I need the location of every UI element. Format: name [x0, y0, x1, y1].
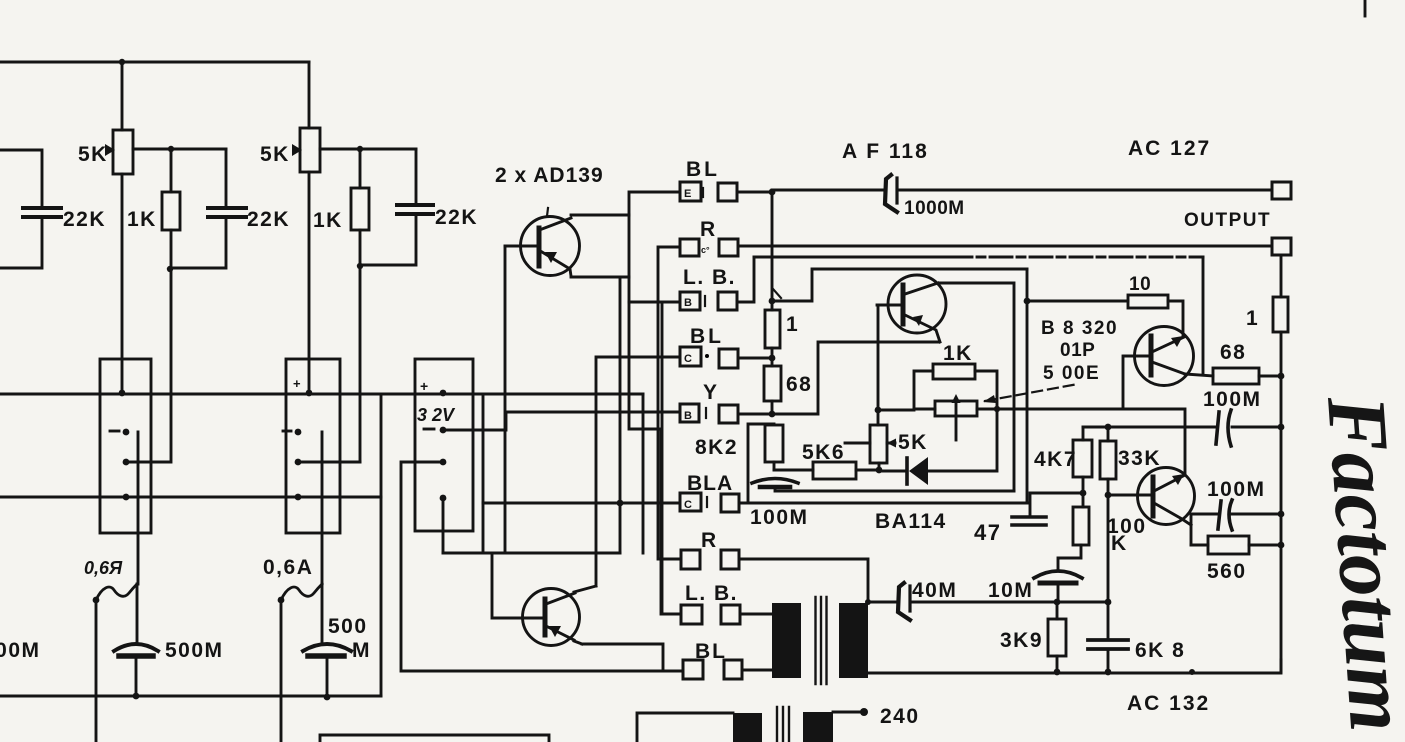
transistor Q3 AF118: [888, 275, 946, 333]
wire: BLA long rail y503: [483, 502, 1028, 505]
wire: battery pin3 left and down to BL bottom row: [401, 462, 683, 671]
svg-text:10M: 10M: [988, 579, 1033, 602]
wire: long supply rail y394: [0, 393, 643, 396]
svg-text:C: C: [684, 353, 692, 365]
resistor 100K: [1073, 507, 1089, 545]
svg-text:B: B: [684, 410, 692, 422]
svg-text:AC 127: AC 127: [1128, 137, 1211, 160]
svg-text:B 8 320: B 8 320: [1041, 318, 1118, 339]
potentiometer 5K (right channel): [300, 128, 320, 172]
svg-text:3 2V: 3 2V: [417, 405, 456, 425]
wire: between 1 and 68: [771, 348, 774, 366]
terminal pair row9 BL: [683, 660, 742, 679]
node: battery pin4: [440, 495, 447, 502]
potentiometer B8320 trimmer: [935, 401, 977, 416]
terminal: output 2: [1272, 238, 1291, 255]
terminal pair row5 Y: [680, 404, 738, 423]
wire: row3 right jog up to long feedback line: [737, 257, 754, 302]
wire: mesh row y553: [443, 552, 620, 555]
transformer T1 winding left: [772, 603, 801, 678]
wire: row5 right to chain node and jog up to Q3 emitter line: [738, 342, 938, 414]
wire: LB row1 to LB row2 tie: [661, 302, 664, 614]
wire: 100M lower row: [1191, 513, 1281, 516]
wire: Q2 base feed: [492, 553, 523, 618]
svg-text:R: R: [701, 529, 718, 552]
wire: long line y257 dashed part: [950, 256, 1203, 259]
svg-text:B: B: [684, 297, 692, 309]
svg-text:C: C: [684, 499, 692, 511]
terminal pair row6 BLA: [680, 493, 739, 512]
wire: fuse1 right to 500M cap1: [136, 584, 139, 642]
capacitor 40M: [898, 583, 910, 620]
wire: box1 pin3 to 1K1 rail: [126, 269, 171, 462]
node: box1 pin3: [123, 459, 130, 466]
svg-text:100M: 100M: [750, 506, 809, 529]
svg-text:6K 8: 6K 8: [1135, 639, 1185, 662]
potentiometer 5K (bias trimmer): [870, 425, 887, 463]
wire: fuse1 left lead down: [95, 600, 98, 742]
capacitor 1000M: [885, 175, 897, 212]
svg-text:L. B.: L. B.: [683, 266, 736, 289]
capacitor 10M (electrolytic): [1034, 571, 1082, 578]
wire: Q3 collector to feedback return: [938, 283, 1014, 491]
resistor 68 (output): [1213, 368, 1259, 384]
capacitor 100M (upper coupling): [1216, 412, 1219, 444]
wire: box2 pin3 to 1K2 rail: [298, 461, 360, 464]
wire: 560 row: [1191, 544, 1208, 547]
wire: 3K9 top lead: [1056, 602, 1059, 619]
capacitor 100M (lower): [1218, 501, 1221, 529]
node: box2 pin4: [295, 494, 302, 501]
svg-text:40M: 40M: [912, 579, 957, 602]
wire: 1K right leg: [975, 371, 997, 409]
svg-text:22K: 22K: [435, 206, 478, 229]
wire: 10 to Q4 top lead: [1168, 301, 1183, 337]
svg-text:68: 68: [1220, 341, 1246, 364]
capacitor 22K (third): [397, 205, 433, 214]
wire: rail corner down x643: [642, 394, 645, 553]
terminal pair row3 L.B.: [680, 292, 737, 310]
wire: bottom ground rail left: [0, 695, 381, 698]
wire: row4 right to resistor chain node: [738, 357, 772, 360]
wire: 68 bottom to Y node: [771, 401, 774, 414]
wire: 68 to right rail: [1259, 375, 1281, 378]
transformer T2 frame: [637, 713, 733, 742]
wire: Q1 emitter drop2 with jog to LB row2: [629, 277, 681, 614]
wire: 1K1 bottom lead: [170, 230, 173, 269]
wire: 4K7 top lead: [1082, 427, 1085, 440]
wire: row7 right to transformer primary top: [739, 559, 868, 603]
node: box1 pin2 with minus mark: [123, 429, 130, 436]
node: 1K2 bottom junction: [357, 263, 363, 269]
transformer T1 core lines: [816, 597, 827, 684]
capacitor 47: [1012, 517, 1046, 525]
resistor 1K (first): [162, 192, 180, 230]
node: box1 pin1: [119, 390, 126, 397]
svg-text:+: +: [420, 378, 428, 394]
wire: 40M row from transformer: [868, 601, 896, 604]
resistor 1 (output, vertical): [1273, 297, 1288, 332]
resistor 5K6: [813, 462, 856, 479]
wire: right rail: [1280, 332, 1283, 672]
wire: 1K2 rail down to switch box2 row: [359, 266, 362, 462]
svg-text:0,6A: 0,6A: [263, 556, 313, 579]
wire: bottom rail right section: [868, 660, 1281, 673]
wire: row2 rail to output terminal 2: [738, 245, 1272, 248]
wire: long rail y497: [0, 496, 381, 499]
battery box 3 2V: [415, 359, 473, 531]
transistor Q4 AC127: [1135, 327, 1194, 386]
wire: 500M cap2 bottom lead: [326, 658, 329, 697]
wire: Q2 emitter to BL bottom row: [574, 641, 663, 671]
capacitor 6K8: [1088, 640, 1128, 649]
svg-text:BL: BL: [690, 325, 724, 348]
wire: 22K cap1 leads off canvas left: [0, 150, 42, 268]
switch box 1 (left channel connector block): [100, 359, 151, 533]
svg-text:BLA: BLA: [687, 472, 733, 495]
wire: 5K pot1 wiper row to 22K cap2: [133, 148, 226, 151]
svg-text:5 00E: 5 00E: [1043, 363, 1100, 384]
svg-text:E: E: [684, 188, 691, 200]
svg-text:0,6Я: 0,6Я: [84, 558, 123, 578]
svg-text:A F 118: A F 118: [842, 140, 929, 163]
svg-text:68: 68: [786, 373, 812, 396]
svg-text:L. B.: L. B.: [685, 582, 738, 605]
svg-text:1000M: 1000M: [904, 198, 965, 219]
wire: feedback jog from chain node to inner line: [772, 269, 1027, 301]
wire: right drop x1203 to 68 row: [1202, 257, 1205, 374]
wire: Q4 emitter to 68 resistor: [1185, 374, 1213, 376]
wire: 1K / trimmer parallel left leg: [878, 371, 933, 410]
svg-text:5K: 5K: [260, 143, 290, 166]
resistor 8K2: [765, 425, 783, 462]
potentiometer 5K (left channel): [113, 130, 133, 174]
wire: diode row: [879, 409, 997, 471]
wire: battery minus row to Y terminal row: [443, 412, 680, 430]
terminal pair row8 L.B.: [681, 605, 740, 624]
svg-text:M: M: [352, 639, 371, 662]
wire: battery pin4 down to mesh row: [442, 498, 445, 553]
svg-text:1K: 1K: [943, 342, 973, 365]
svg-text:5K6: 5K6: [802, 441, 845, 464]
wire: 3K9 bottom lead: [1056, 656, 1059, 672]
transformer T2 core lines: [777, 707, 789, 742]
svg-text:BL: BL: [686, 158, 720, 181]
svg-text:47: 47: [974, 520, 1001, 545]
wire: Q3 base column through 5K pot top: [877, 305, 880, 425]
node: box2 pin1 (plus): [306, 390, 313, 397]
svg-text:1: 1: [786, 313, 799, 336]
svg-text:8K2: 8K2: [695, 436, 738, 459]
node: box1 pin4: [123, 494, 130, 501]
wire: Q5 emitter split: [1190, 514, 1193, 545]
wire: 100M coupling rail y427: [1083, 426, 1281, 429]
svg-text:100M: 100M: [1203, 388, 1262, 411]
svg-text:22K: 22K: [63, 208, 106, 231]
wire: 22K cap2 top lead: [225, 149, 228, 207]
svg-text:240: 240: [880, 705, 920, 728]
svg-text:c°: c°: [701, 245, 710, 255]
svg-text:4K7: 4K7: [1034, 448, 1077, 471]
wire: row1 to 1000M node: [737, 191, 772, 194]
wire: fuse2 right to 500M cap2: [321, 584, 324, 642]
mark: degree after row4 square: [705, 354, 709, 358]
svg-text:AC 132: AC 132: [1127, 692, 1210, 715]
wire: Q1 base column: [504, 246, 507, 553]
wire: fuse2 left lead down: [280, 600, 283, 742]
resistor 4K7: [1073, 440, 1092, 477]
wire: middle resistor chain column x772: [771, 192, 774, 310]
wire: box2 inner column down to fuse2: [321, 432, 324, 584]
wire: 33K column to 40M row: [1107, 495, 1110, 602]
box at bottom left edge: [320, 735, 549, 742]
wire: 4K7 bottom node: [1082, 477, 1085, 507]
svg-text:OUTPUT: OUTPUT: [1184, 210, 1271, 231]
resistor 1K (horizontal): [933, 364, 975, 379]
wire: 1K2 top lead: [359, 149, 362, 188]
node: 1K2 top junction: [357, 146, 363, 152]
wire: Q4 base riser to trimmer row: [1122, 356, 1125, 409]
wire: top supply rail: [0, 61, 309, 64]
wire: top rail corner down to 5K pot2: [308, 62, 311, 128]
wire: 47 cap leads: [1030, 493, 1083, 517]
resistor 3K9: [1048, 619, 1066, 656]
wire: 8K2 node to 5K6: [774, 469, 813, 472]
svg-text:K: K: [1111, 532, 1128, 555]
resistor 10: [1128, 295, 1168, 308]
svg-text:1: 1: [1246, 307, 1259, 330]
svg-text:5K: 5K: [898, 431, 928, 454]
node: box2 pin3: [295, 459, 302, 466]
wire: trimmer row to Q4 base riser: [914, 408, 1123, 411]
node: box2 pin2 with minus mark: [295, 429, 302, 436]
transistor Q5 AC132: [1138, 468, 1195, 525]
wire: 33K top lead: [1107, 427, 1110, 441]
fuse 0,6A (right): [281, 584, 322, 600]
wire: 5K6 to 5K pot bottom node: [856, 469, 879, 472]
capacitor 500M (first electrolytic): [114, 644, 158, 651]
resistor 1K (second): [351, 188, 369, 230]
wire: 22K cap3 bottom lead to 1K2 bottom: [360, 215, 416, 265]
wire: row8 right to transformer winding: [740, 613, 772, 616]
svg-text:Y: Y: [703, 381, 719, 404]
wire: 10M bottom lead: [1057, 584, 1060, 602]
transformer T2 winding right: [803, 712, 833, 742]
svg-text:100M: 100M: [1207, 478, 1266, 501]
wire: Q1 collector up to BL terminal row1: [629, 192, 680, 215]
svg-text:33K: 33K: [1118, 447, 1161, 470]
wire: 8K2 bottom node: [773, 462, 776, 470]
wire: 5K pot2 lower lead down to switch box2: [308, 172, 311, 393]
svg-text:1K: 1K: [313, 209, 343, 232]
wire: 40M to 3K9/6K8 nodes: [911, 601, 1108, 604]
svg-text:560: 560: [1207, 560, 1247, 583]
capacitor 500M (second electrolytic): [303, 644, 351, 651]
wire: vertical riser x381: [380, 394, 383, 696]
terminal pair row1 BL (E): [680, 182, 737, 201]
terminal pair row7 R: [681, 550, 739, 569]
terminal pair row2 R: [680, 239, 738, 256]
wire: 22K cap2 bottom lead to 1K1 bottom: [170, 218, 226, 268]
wire: row9 right to transformer winding bottom: [742, 669, 772, 672]
svg-text:500M: 500M: [0, 639, 41, 662]
transistor Q1 AD139: [521, 217, 580, 276]
wire: 500M cap1 bottom lead: [135, 658, 138, 696]
capacitor 100M (emitter bypass): [752, 479, 798, 484]
svg-text:22K: 22K: [247, 208, 290, 231]
wire: row2 left to R2 tie column: [658, 247, 681, 559]
wire: 6K8 top lead: [1107, 602, 1110, 639]
wire: 10 resistor feed from feedback node: [1027, 300, 1128, 303]
wire: 33K bottom to Q5 base node: [1107, 479, 1110, 495]
wire: 560 to rail: [1249, 544, 1281, 547]
svg-text:500: 500: [328, 615, 368, 638]
wire: Q2 collector up to BL row4: [574, 357, 680, 592]
resistor 560: [1208, 536, 1249, 554]
wire: 1K2 bottom lead: [359, 230, 362, 266]
svg-text:10: 10: [1129, 274, 1151, 295]
node: 1K1 top junction: [168, 146, 174, 152]
mark: sheet edge top right: [1364, 0, 1367, 16]
wire: 22K cap3 top lead: [415, 149, 418, 204]
wire: trimmer row to Q5 collector: [1123, 409, 1185, 473]
terminal: output 1: [1272, 182, 1291, 199]
capacitor 22K (second): [208, 208, 246, 217]
wire: 5K pot2 wiper row to 22K cap3: [320, 148, 416, 151]
resistor 1 (middle chain): [765, 310, 780, 348]
wire: 240 tap: [833, 711, 862, 714]
wire: 6K8 bottom lead: [1107, 650, 1110, 672]
node: battery pin2 with minus mark: [440, 427, 447, 434]
fuse 0,6A (left): [96, 584, 137, 600]
mark: stray tick near chain: [773, 289, 781, 298]
svg-text:+: +: [293, 376, 301, 391]
resistor 33K: [1100, 441, 1116, 479]
wire: output terminal2 down to 1 resistor: [1280, 255, 1283, 297]
wire: 1000M to output terminal 1: [899, 189, 1272, 192]
svg-text:1K: 1K: [127, 208, 157, 231]
node: battery pin3: [440, 459, 447, 466]
diode BA114: [905, 458, 909, 484]
wire: feedback drop x1027: [1026, 269, 1029, 503]
transformer T2 winding left: [733, 713, 762, 742]
switch box 2 (right channel connector block): [286, 359, 340, 533]
wire: 100M cap bottom to feedback return y491: [775, 488, 1014, 491]
wire: 8K2 top lead from BLA riser: [748, 424, 774, 503]
svg-text:5K: 5K: [78, 143, 108, 166]
wire: Q1 emitter drop to BLA node: [619, 277, 622, 553]
svg-text:R: R: [700, 218, 717, 241]
wire: long line y257 to right section: [754, 256, 950, 259]
resistor 68 (middle chain): [764, 366, 781, 401]
wire: 1K1 top lead: [170, 149, 173, 192]
wire: 5K pot1 lower lead down to switch box1: [121, 174, 124, 393]
svg-text:01P: 01P: [1060, 340, 1095, 361]
node: battery pin1 plus: [440, 390, 447, 397]
transistor Q2 AD139: [523, 589, 580, 646]
terminal pair row4 BL: [680, 347, 738, 368]
wire: 5K pot 1 top lead: [121, 62, 124, 130]
wire: row1 rail to 1000M cap: [772, 189, 886, 192]
node: top rail junction: [119, 59, 125, 65]
node: 1K1 bottom junction: [167, 266, 173, 272]
svg-text:2 x AD139: 2 x AD139: [495, 164, 604, 187]
wire: box1 inner column down to fuse1: [137, 432, 140, 584]
wire: LB row1 tap: [629, 301, 680, 304]
transformer T1 winding right: [839, 603, 868, 678]
wire: riser x483 from supply rail to mesh: [482, 394, 485, 553]
svg-text:500M: 500M: [165, 639, 224, 662]
wire: 100K bottom to 10M cap: [1058, 545, 1081, 570]
capacitor 22K (first, far left): [23, 208, 61, 217]
svg-text:3K9: 3K9: [1000, 629, 1043, 652]
svg-text:BA114: BA114: [875, 510, 947, 533]
wire: Q1 collector-emitter loop rectangle: [571, 215, 629, 277]
svg-text:BL: BL: [695, 640, 727, 663]
pointer: dash-dot arrow to trimmer: [985, 384, 1078, 401]
